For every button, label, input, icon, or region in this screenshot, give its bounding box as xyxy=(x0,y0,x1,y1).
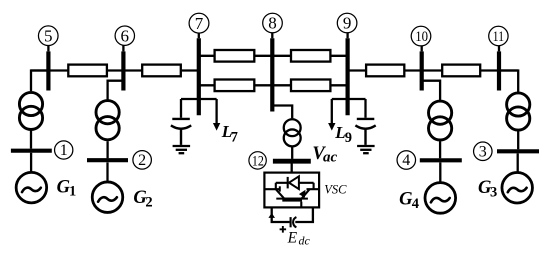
svg-text:E: E xyxy=(287,230,298,247)
svg-text:4: 4 xyxy=(412,196,419,212)
svg-text:dc: dc xyxy=(299,233,311,247)
svg-text:1: 1 xyxy=(69,184,76,200)
svg-text:5: 5 xyxy=(44,26,53,45)
svg-text:VSC: VSC xyxy=(324,183,347,197)
svg-text:ac: ac xyxy=(323,149,338,165)
svg-text:8: 8 xyxy=(268,14,277,33)
svg-text:9: 9 xyxy=(343,14,352,33)
svg-text:11: 11 xyxy=(493,29,505,45)
svg-text:2: 2 xyxy=(138,152,146,169)
svg-text:2: 2 xyxy=(145,194,152,210)
svg-text:12: 12 xyxy=(252,154,264,170)
svg-text:4: 4 xyxy=(402,152,410,169)
svg-text:7: 7 xyxy=(195,14,204,33)
svg-text:10: 10 xyxy=(415,29,428,45)
svg-text:7: 7 xyxy=(231,129,238,145)
svg-text:1: 1 xyxy=(60,142,68,159)
svg-text:9: 9 xyxy=(345,130,352,146)
svg-text:6: 6 xyxy=(121,26,130,45)
svg-text:3: 3 xyxy=(479,143,487,160)
svg-text:3: 3 xyxy=(490,184,497,200)
